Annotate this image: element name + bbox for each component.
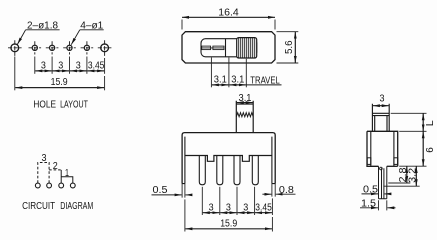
label 4-ø1 with leader [80, 20, 103, 31]
side ear plates [371, 131, 394, 166]
right ear inner line [272, 137, 275, 184]
bracket position 1 (solid) [61, 177, 73, 183]
side knob [372, 104, 389, 132]
pin P1 [199, 156, 205, 185]
front dim line 3|3|3|3.45 [203, 212, 272, 214]
slider track [201, 39, 257, 57]
front knob [236, 101, 253, 133]
hole H3 (ø1) [50, 45, 55, 50]
side knob dimension line 3 [373, 105, 389, 107]
terminal T1 [35, 183, 40, 188]
knob serration zigzag [236, 113, 253, 117]
dim text 3.1 3.1 TRAVEL [214, 75, 280, 87]
bracket position 2 right leg [60, 170, 62, 183]
dimension line 16.4 [182, 16, 275, 18]
svg-text:3: 3 [209, 202, 214, 213]
track divider line [225, 39, 227, 57]
side knob dim text 3 [380, 94, 385, 105]
svg-text:HOLE: HOLE [33, 99, 56, 111]
dim text 5.6 (rotated) [284, 40, 295, 54]
dim 2.8 [388, 182, 410, 184]
side dim 0.5 [363, 185, 378, 196]
dim text 3 [41, 61, 105, 72]
extension lines 5.6 [277, 32, 299, 63]
pin P4 [252, 156, 258, 185]
terminal T2 [47, 183, 52, 188]
svg-text:5.6: 5.6 [284, 40, 295, 54]
travel dimension line 3.1|3.1 [212, 84, 282, 86]
slider slot 2 [213, 46, 224, 50]
label 1 [65, 168, 69, 179]
svg-text:3.45: 3.45 [255, 202, 272, 213]
nub [380, 167, 383, 170]
dimension line 5.6 [294, 32, 296, 63]
dim 0.8 (right ear) [279, 185, 294, 196]
svg-text:16.4: 16.4 [218, 7, 239, 18]
slider slot 1 [202, 46, 211, 50]
dim text 16.4 [218, 7, 239, 18]
side pin [379, 166, 387, 199]
svg-text:3: 3 [58, 61, 63, 72]
front dim text 15.9 [220, 219, 237, 230]
slot centerline [202, 47, 224, 49]
centerline crosses of holes [8, 40, 111, 56]
svg-text:3.1: 3.1 [214, 75, 227, 86]
knob (hatched) [237, 38, 257, 58]
svg-text:3: 3 [226, 202, 231, 213]
hole H5 (ø1) [84, 45, 89, 50]
ear extension stubs [182, 184, 275, 198]
svg-text:3.1: 3.1 [231, 75, 244, 86]
bracket position 3 (dashed) [38, 163, 49, 183]
svg-text:TRAVEL: TRAVEL [250, 75, 280, 86]
dim 3.2 [383, 185, 419, 187]
label 2-ø1.8 with leader [27, 20, 58, 31]
svg-text:L: L [425, 120, 436, 126]
svg-text:3: 3 [41, 61, 46, 72]
svg-text:1: 1 [65, 168, 69, 179]
hole H2 (ø1) [32, 45, 37, 50]
bottom edge right part [387, 165, 398, 167]
travel extension lines [211, 58, 246, 88]
dimension line 3|3|3|3.45 [35, 70, 104, 72]
svg-text:15.9: 15.9 [51, 77, 68, 88]
front dim text 3 3 3 3.45 [209, 202, 273, 213]
dim L [422, 113, 424, 131]
knob dim text 3.1 [239, 93, 252, 104]
svg-text:CIRCUIT: CIRCUIT [22, 200, 55, 212]
pin P2 [217, 156, 223, 185]
title HOLE LAYOUT [33, 99, 88, 111]
front body outline [182, 133, 275, 184]
side ear feet [367, 158, 371, 165]
svg-text:15.9: 15.9 [220, 219, 237, 230]
dim text 15.9 [51, 77, 68, 88]
label 3 [42, 153, 47, 164]
dimension row 3|3|3|3.45 extension lines [35, 57, 105, 74]
side dim 1.5 [361, 198, 376, 209]
svg-text:3: 3 [42, 153, 47, 164]
hole H1 (ø1.8) [11, 44, 19, 52]
svg-text:3: 3 [380, 94, 385, 105]
dim 6 [422, 131, 424, 166]
left ear inner line [182, 137, 185, 184]
body top extension line [399, 130, 426, 132]
svg-text:LAYOUT: LAYOUT [60, 99, 88, 111]
svg-text:6: 6 [425, 147, 436, 153]
extension lines 16.4 [182, 20, 275, 30]
svg-text:3: 3 [243, 202, 248, 213]
dimension line 15.9 [15, 87, 104, 89]
knob top extension line [391, 112, 427, 114]
hole H4 (ø1) [67, 45, 72, 50]
knob dimension line 3.1 [237, 102, 253, 104]
front body bottom profile [185, 156, 272, 162]
terminal T3 [59, 183, 64, 188]
switch body outline (top view) [182, 32, 275, 63]
dim 0.5 (left ear) [153, 185, 168, 196]
svg-text:2: 2 [53, 161, 58, 172]
pin P3 [234, 156, 240, 185]
knob hatch lines [239, 38, 255, 58]
terminal T4 [70, 183, 75, 188]
extension lines 15.9 [15, 57, 105, 91]
front dimension line 15.9 [185, 228, 272, 230]
body bottom extension line [399, 165, 426, 167]
label 2 [53, 161, 58, 172]
svg-text:3.2: 3.2 [407, 167, 418, 182]
front pin extension lines [185, 187, 273, 232]
title CIRCUIT DIAGRAM [22, 200, 93, 212]
side body outline [367, 131, 398, 166]
bracket position 2 (dashed horizontal) [49, 169, 61, 171]
svg-text:3: 3 [76, 61, 81, 72]
hole H6 (ø1.8) [101, 44, 109, 52]
svg-text:DIAGRAM: DIAGRAM [60, 200, 93, 212]
svg-text:3.45: 3.45 [88, 61, 105, 72]
